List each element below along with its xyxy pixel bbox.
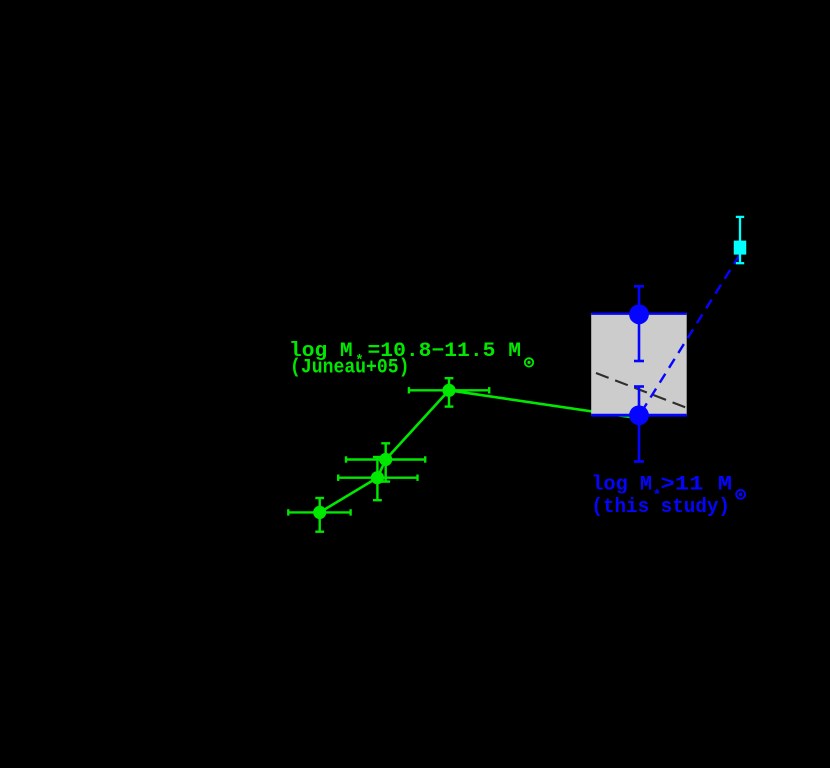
shaded region (this study mass bin): [591, 313, 687, 416]
green label line 1: log M*=10.8-11.5 Msun: [289, 340, 521, 369]
black dashed line across shaded box: [596, 373, 687, 408]
blue bottom edge of shaded box: [591, 414, 687, 417]
green point P1 y error bar: [315, 498, 324, 532]
blue dashed connector from cyan square to lower blue point: [641, 255, 740, 414]
svg-text:>11 M: >11 M: [661, 474, 733, 497]
blue lower point error bar: [634, 387, 644, 462]
green point P4 x error bar: [409, 387, 489, 393]
green marker P1: [313, 506, 326, 519]
green marker P2: [371, 471, 384, 484]
green point P1 x error bar: [288, 509, 350, 515]
cyan square marker: [734, 241, 747, 255]
green point P4 y error bar: [445, 378, 454, 406]
blue upper point error bar: [634, 286, 644, 361]
green point P2 x error bar: [338, 475, 417, 481]
blue label line 1: log M*>11 Msun: [591, 474, 732, 505]
blue top edge of shaded box: [591, 313, 687, 315]
svg-text:(this study): (this study): [591, 496, 730, 519]
green point P3 y error bar: [381, 443, 390, 481]
green point P3 x error bar: [346, 456, 425, 462]
green marker P4: [442, 384, 455, 397]
green polyline connecting Juneau+05 points and this-study point (drawn behind shaded box): [320, 390, 640, 512]
svg-text:log M: log M: [591, 474, 652, 497]
cyan point error bar: [736, 217, 744, 263]
blue label sun symbol: [736, 490, 745, 499]
blue upper point marker: [629, 304, 649, 324]
green marker P3: [379, 453, 392, 466]
green label sun symbol: [525, 358, 533, 366]
blue lower point marker: [629, 405, 649, 425]
green point P2 y error bar: [373, 457, 382, 500]
svg-text:(Juneau+05): (Juneau+05): [290, 357, 410, 380]
